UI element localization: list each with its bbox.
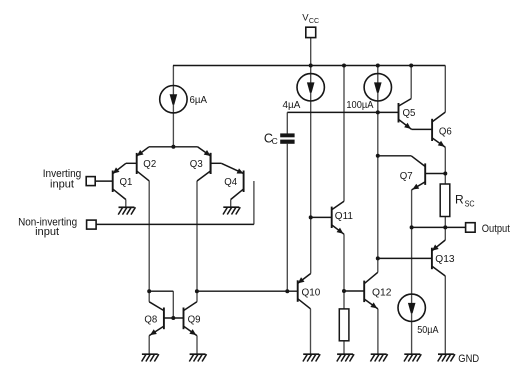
svg-text:100µA: 100µA [346,99,373,111]
svg-text:6µA: 6µA [190,94,208,106]
svg-text:input: input [50,178,74,190]
svg-text:4µA: 4µA [283,99,301,111]
svg-text:Q7: Q7 [400,170,413,182]
svg-text:Q3: Q3 [190,158,203,170]
svg-text:Q2: Q2 [143,158,156,170]
svg-text:Q9: Q9 [188,314,201,326]
svg-text:Q10: Q10 [302,286,321,298]
svg-text:GND: GND [458,353,479,365]
svg-text:input: input [35,226,59,238]
svg-text:Q1: Q1 [120,176,133,188]
svg-text:Q8: Q8 [144,314,157,326]
svg-text:C: C [272,136,278,146]
svg-text:SC: SC [465,198,475,208]
svg-text:Q13: Q13 [435,253,454,265]
svg-text:Q11: Q11 [335,210,353,222]
svg-text:CC: CC [309,18,319,25]
svg-text:Q12: Q12 [372,286,392,298]
svg-text:Output: Output [482,223,510,235]
svg-text:50µA: 50µA [417,324,438,336]
svg-text:Q6: Q6 [439,126,452,138]
svg-text:Q5: Q5 [403,107,416,119]
svg-text:R: R [455,192,464,206]
svg-text:Q4: Q4 [224,176,237,188]
